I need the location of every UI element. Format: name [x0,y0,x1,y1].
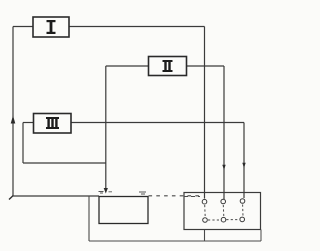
wire: bottom rail right riser [260,230,262,242]
label III [46,117,59,129]
wire: box I right lead to top-right corner [69,26,205,28]
dashed link bottom terminals 1-2 [208,219,221,221]
terminal bottom 1 [203,218,208,223]
switch box (bottom right) [184,193,261,230]
instrument box (bottom left) [99,197,148,224]
wire: below switch box to bottom rail [204,230,206,242]
terminal top 3 [240,199,245,204]
wire: bottom rail [89,240,261,242]
terminal mark right on instrument [139,192,146,194]
label I [47,20,56,34]
arrow up on left rail [11,116,16,124]
dashed link bottom terminals 2-3 [226,219,239,221]
wire: vertical line C down to terminal 3 [243,123,245,199]
terminal top 2 [221,199,226,204]
dashed line inside switch box [184,196,200,198]
wire: drop from bottom-left wire down to bottom rail [88,196,90,241]
wire: box III left lead [23,122,34,124]
wire: box I left lead [13,26,33,28]
wire: left vertical rail [12,27,14,197]
wire: vertical from box II down to instrument [105,66,107,190]
arrow down on line B [222,165,225,170]
block I [33,17,69,37]
dashed lever 1 [204,205,207,217]
wire: vertical line A down to terminal 1 [204,27,206,199]
dashed link instrument to switch box [149,195,202,197]
wire: bottom-left horizontal to instrument [13,195,99,197]
arrow down into instrument [104,188,108,194]
dashed lever 2 [222,205,225,217]
block II [149,57,187,76]
wire: box II right lead [187,65,225,67]
wire: box III left lead drop [22,123,24,164]
label II [163,60,173,72]
terminal bottom 3 [240,217,245,222]
wire: horizontal from box III stub to box II vertical [23,162,106,164]
block III [34,114,72,134]
terminal mark left on instrument [99,192,113,194]
corner tick at rail bend [9,196,13,200]
dashed lever 3 [242,205,244,217]
wire: vertical line B down to terminal 2 [223,66,225,199]
wire: box III right lead [71,122,244,124]
arrow down on line C [242,163,245,168]
wire: box II left lead [106,65,149,67]
terminal bottom 2 [221,217,226,222]
terminal top 1 [202,199,207,204]
